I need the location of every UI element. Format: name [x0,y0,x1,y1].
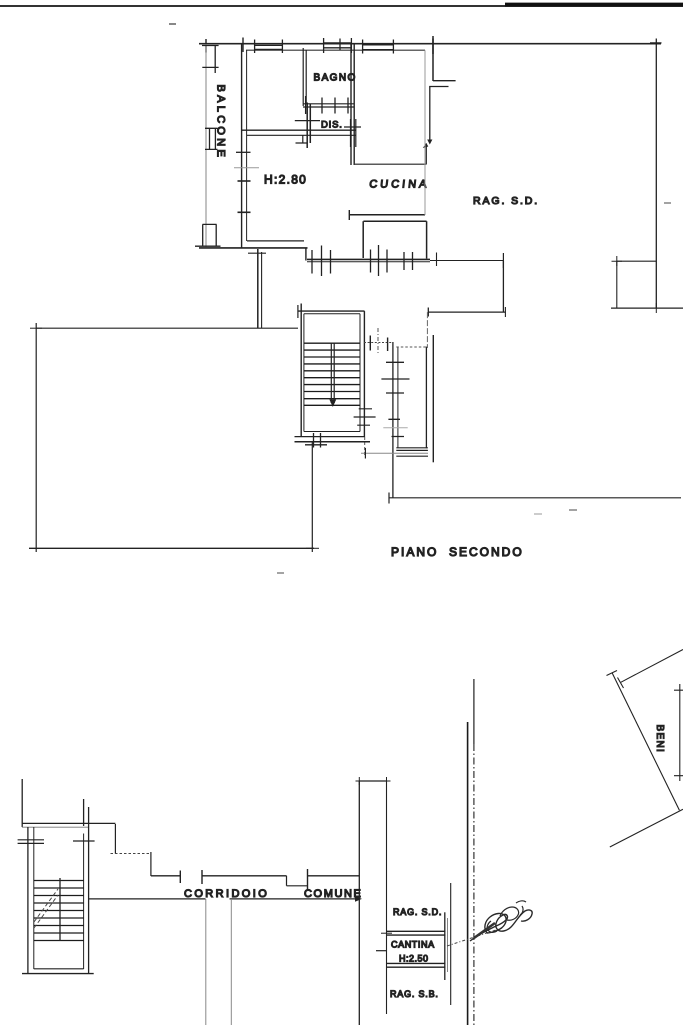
flue notch horizontals [429,81,455,87]
small dash y510 [569,509,577,511]
double site line B (solid dark) [467,722,469,1025]
jamb tick x180 [179,871,181,884]
wall y312 back to x428 [428,311,505,313]
svg-text:H:2.50: H:2.50 [399,954,429,964]
cantina box top band [387,931,446,935]
stairwell bottom second line [295,441,371,443]
right wall dark segment with arrow [429,87,431,141]
window tick on left wall y212 [238,211,251,213]
cantina right wall second line [447,918,449,972]
door hatch ticks on shaft left wall [381,362,409,436]
door opening tick at DIS left [295,120,320,122]
light tick on shaft wall y427 [383,427,407,429]
wall: apartment top outer [199,43,661,45]
passage dotted line stair to shaft [364,342,392,344]
stairwell bottom outer [22,973,94,975]
tick at end x505 [504,307,506,317]
stairwell outer left wall [300,304,302,438]
stairwell inner left wall [33,827,35,969]
wall: apartment left outer [241,44,243,249]
stair divider arrow [329,400,336,408]
balcony rail box 1 [202,46,219,74]
wall band lower line [247,134,356,136]
long horizontal line y498 [389,497,681,499]
step: vertical x115 [114,824,116,854]
window sill light line y168 [234,167,259,169]
vertical from stairwell down to big rectangle bottom [311,442,313,552]
stairwell right outer wall dashed extension [364,437,366,457]
svg-text:RAG. S.B.: RAG. S.B. [390,989,439,999]
diagonal D2 (to NE) [621,650,683,683]
corridor top wall segment 2 [202,875,287,877]
thin wall extension to right [430,260,503,262]
terrace box below cucina [363,221,426,258]
diagonal D3 (lower, to NE) [610,809,683,847]
tick at corner x503 [502,253,504,268]
dimension end ticks [674,690,683,776]
corridor top wall segment 1 [151,875,180,877]
diagonal D1 (long, to SE) [612,673,679,811]
stamp scribble [470,910,532,941]
wall: CUCINA top line [355,163,427,165]
jamb tick x202 [201,870,203,884]
window tick on left wall y181 [238,180,251,182]
flue notch top right: vertical [432,39,434,82]
step down at x306 [305,248,307,261]
stairwell right outer wall [88,834,90,974]
shaft left wall [392,342,394,498]
door ticks right of stairwell [354,409,376,425]
svg-text:RAG. S.D.: RAG. S.D. [393,907,442,917]
light vertical below corridor x231 [230,899,232,1025]
tick at its left end [388,493,390,504]
wall: apartment right (light) [424,50,426,215]
stairwell inner box [304,314,360,432]
arrowhead at corridor bottom right end [355,896,362,902]
tall rectangle right wall [386,781,388,1014]
wall going down from apartment (double) [257,249,259,329]
svg-text:CUCINA: CUCINA [369,179,430,191]
stair divider (cantina) [59,878,61,941]
balcony rail box 3 [195,224,221,246]
big rectangle top-left tick [30,327,42,329]
light vertical below corridor x206 [205,899,207,1025]
small dash y514 [534,513,542,515]
cantina box bottom band [387,963,446,967]
stairwell (cantina) outer left wall [27,827,29,974]
dimension line right edge [679,684,681,781]
window hatch on right wall [73,840,95,842]
cucina top-right vertical with arrow [425,144,427,165]
svg-text:BAGNO: BAGNO [314,73,357,84]
small square left side [616,261,618,308]
square corner ticks [612,256,657,313]
bottom-right end ticks [306,547,319,549]
shaft top (dotted) [396,346,428,348]
stairwell right outer wall [363,311,365,437]
tick crossing wall-down top [248,252,266,254]
stair central divider [331,343,334,403]
window tick on left wall y152 [236,151,251,153]
tick at band left [364,448,366,459]
shaft bottom double [396,448,428,451]
stairwell top outer [298,310,365,312]
dash-dot tick x378 [377,328,379,353]
entry vertical top left [21,779,23,827]
svg-text:H:2.80: H:2.80 [264,173,307,187]
left tick extensions of top band [381,932,392,934]
stair treads (cantina) [34,881,84,941]
wall: BAGNO right / DIS right (double) [351,44,354,165]
bottom line y308 to right edge [611,307,683,309]
jamb tick x307 [307,869,309,889]
svg-text:DIS.: DIS. [321,120,343,131]
window hatch group 2 on bottom wall [371,245,388,276]
corner ticks of tall rectangle [356,777,391,785]
stairwell bottom inner [34,968,84,970]
wall band across (below upper-left room and DIS) upper line [241,129,356,131]
svg-text:RAG. S.D.: RAG. S.D. [473,195,539,207]
small square top line [617,260,657,262]
top scan border line (thin left part) [0,5,683,7]
tick at x150 [150,852,152,876]
tick at D2 left end [618,678,624,689]
svg-text:BALCONE: BALCONE [215,85,227,161]
svg-text:CANTINA: CANTINA [391,940,435,950]
stairwell bottom outer [295,436,365,438]
step: dotted horizontal y853 [111,853,152,855]
balcony rail box 2 [205,128,218,149]
wall: apartment left inner [246,50,248,241]
wall: BAGNO left [303,48,306,106]
tick at end x428 [427,308,429,317]
long vertical right of shaft [432,335,434,462]
entry wall band top [22,822,115,824]
door jamb between room and DIS [307,103,310,149]
small dash below big rectangle [277,572,284,574]
dash-dot leader to stamp [447,928,502,946]
tick on top wall at balcony edge [205,39,207,53]
tall rectangle top [359,780,386,782]
wall below CUCINA [349,214,425,216]
double site line A (dash-dot) [473,679,475,744]
tick on top wall at left wall [242,38,244,53]
corridor top wall segment 3 [308,875,360,877]
small dash right edge y203 [664,202,671,204]
top scan border line (thick right part) [505,3,683,7]
window W3 on top wall [362,40,394,54]
stairwell top-left tick [297,305,299,318]
ticks crossing stairwell bottom [305,433,327,448]
wall: apartment bottom (lower level, double) [307,258,430,260]
window W1 on top wall [254,40,283,54]
shaft right inner wall [425,347,427,449]
stair treads [304,343,360,405]
big rectangle left [35,323,37,552]
tick on top wall right of window W3 [432,36,434,54]
shaft inner left wall [397,347,399,448]
left mid tick [376,950,387,952]
wall: apartment bottom outer (left part) [199,247,308,249]
svg-text:BENI: BENI [654,725,665,754]
diagonal cut dashes [34,889,58,922]
right boundary vertical x656 [655,39,657,309]
corridor bottom wall segment 1 [88,898,206,900]
tall rectangle left wall [358,781,360,1025]
window hatch on left wall [18,840,44,844]
corridor bottom wall segment 2 [230,898,360,900]
door jamb ticks DIS to CUCINA [344,119,361,147]
window hatch group 1 on bottom wall [312,246,331,277]
vertical x450 [450,883,452,1005]
shaft lower band [361,452,428,454]
corner from apartment down to shaft right [426,312,428,348]
svg-text:PIANO SECONDO: PIANO SECONDO [391,545,524,559]
entry wall band lower thin [22,826,88,828]
wall below BAGNO [303,104,354,107]
svg-text:COMUNE: COMUNE [304,888,363,900]
corner cross at top of x656 [650,42,662,44]
window W2 on top wall [323,38,352,53]
window hatch group 3 on bottom wall [404,252,413,270]
small dash top left [169,23,176,25]
balcony outer edge (light) [205,44,207,247]
wall: apartment top inner [246,49,425,51]
jog down at x286 [287,876,308,886]
passage jamb ticks [370,336,387,352]
corner down to y312 [502,261,504,313]
cantina right wall [444,912,446,980]
band right-end step down [296,135,308,143]
tick at left end of cucina bottom wall [348,210,350,220]
tick at D1 top end [607,671,618,676]
stairwell right inner wall [83,834,85,970]
small tick at x436 [436,253,438,267]
svg-text:CORRIDOIO: CORRIDOIO [184,888,269,900]
big rectangle top [36,327,298,329]
wall: room bottom interior [247,240,304,242]
door hatch ticks below BAGNO [306,96,348,114]
big rectangle bottom [29,547,314,549]
door jamb ticks above stairwell right wall [84,799,89,834]
